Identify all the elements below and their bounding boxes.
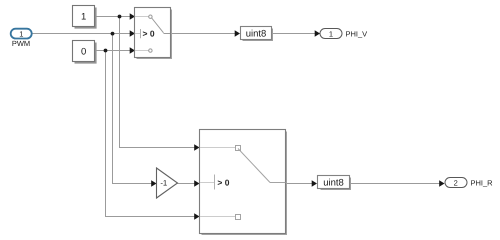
svg-text:uint8: uint8 — [246, 29, 267, 40]
svg-text:PWM: PWM — [12, 39, 30, 48]
svg-text:1: 1 — [19, 29, 23, 38]
svg-text:1: 1 — [329, 29, 333, 38]
svg-text:PHI_V: PHI_V — [346, 29, 368, 38]
svg-text:> 0: > 0 — [217, 178, 229, 188]
svg-text:1: 1 — [81, 11, 86, 22]
svg-text:0: 0 — [81, 46, 86, 57]
svg-text:-1: -1 — [160, 179, 167, 188]
svg-text:2: 2 — [454, 178, 458, 187]
svg-text:uint8: uint8 — [323, 178, 344, 189]
svg-text:> 0: > 0 — [143, 29, 155, 39]
svg-text:PHI_R: PHI_R — [471, 178, 494, 187]
